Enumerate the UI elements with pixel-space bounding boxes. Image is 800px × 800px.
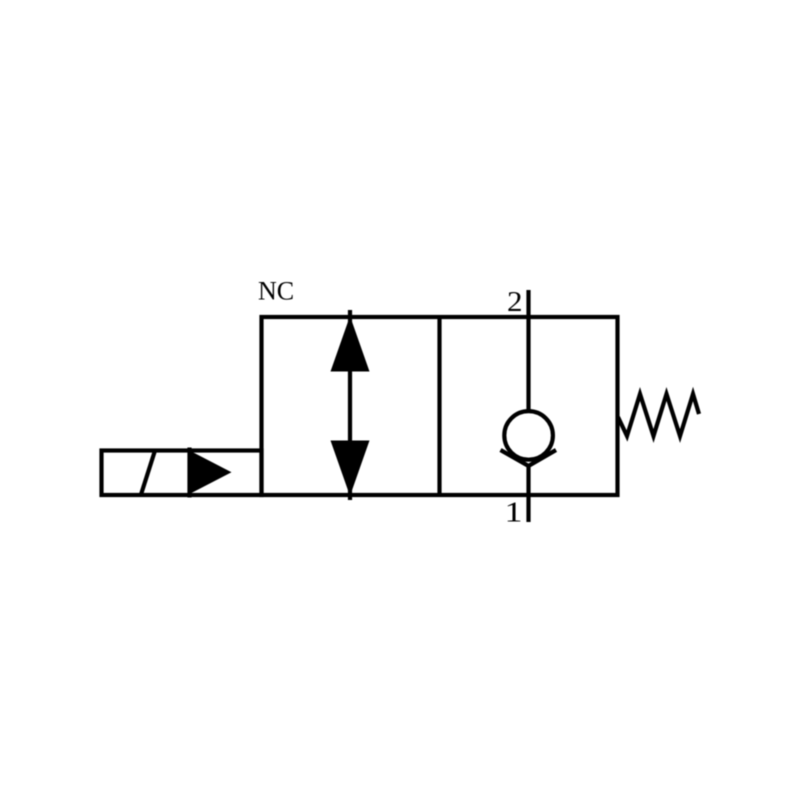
svg-text:2: 2 <box>507 287 523 318</box>
svg-text:NC: NC <box>258 276 294 305</box>
svg-text:1: 1 <box>504 498 522 529</box>
